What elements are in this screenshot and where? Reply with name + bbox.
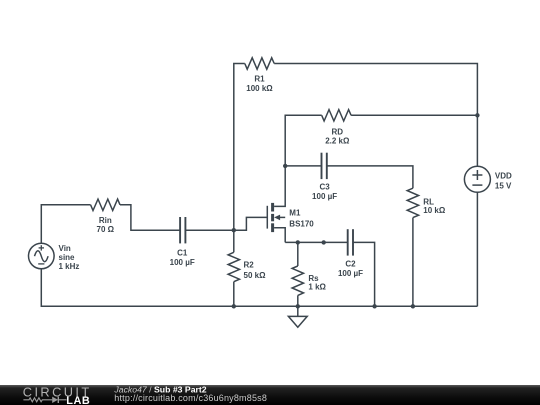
svg-text:C1: C1 <box>177 249 188 258</box>
svg-text:70 Ω: 70 Ω <box>97 225 115 234</box>
svg-text:M1: M1 <box>289 209 301 218</box>
wire R1 to VDD rail <box>274 64 477 167</box>
wire RL to bottom rail <box>412 218 414 307</box>
wire VDD bottom to rail <box>476 192 478 306</box>
node RD-rail junction <box>475 113 479 117</box>
svg-text:R1: R1 <box>254 75 265 84</box>
svg-text:1 kHz: 1 kHz <box>59 262 80 271</box>
wire gate node to M1 gate <box>234 217 267 230</box>
svg-text:sine: sine <box>59 253 76 262</box>
resistor R1 <box>245 58 274 93</box>
wire Vin bottom and ground rail <box>41 269 477 307</box>
node gate junction <box>232 228 236 232</box>
wire C3 to RL <box>327 166 413 188</box>
wire C1 to gate node <box>185 229 233 231</box>
wire Vin top to Rin <box>41 205 90 244</box>
node C2-rail junction <box>372 304 376 308</box>
svg-text:1 kΩ: 1 kΩ <box>308 283 326 292</box>
node drain junction <box>283 164 287 168</box>
ground <box>288 306 307 327</box>
svg-text:R2: R2 <box>244 260 255 269</box>
logo doodle resistor <box>23 398 52 402</box>
resistor R2 <box>228 252 266 281</box>
resistor Rs <box>292 266 326 295</box>
svg-text:C2: C2 <box>345 259 356 268</box>
wire C2 to bottom rail <box>353 242 375 306</box>
logo doodle diode <box>52 397 66 403</box>
node Rs-ground junction <box>296 304 300 308</box>
svg-text:100 µF: 100 µF <box>312 192 337 201</box>
svg-text:Rs: Rs <box>308 274 319 283</box>
svg-text:100 µF: 100 µF <box>338 269 363 278</box>
svg-text:15 V: 15 V <box>495 182 512 191</box>
wire RD to VDD rail <box>351 114 477 116</box>
wire source to Rs <box>297 242 299 266</box>
wire R2 top <box>233 230 235 252</box>
node R2-rail junction <box>232 304 236 308</box>
transistor M1 <box>267 166 314 243</box>
node source-Rs junction <box>296 240 300 244</box>
wire Rs to bottom rail <box>297 295 299 306</box>
source VDD <box>464 166 512 192</box>
source Vin <box>29 243 80 271</box>
svg-text:Rin: Rin <box>99 216 112 225</box>
svg-text:2.2 kΩ: 2.2 kΩ <box>325 137 350 146</box>
footer bar <box>0 385 540 405</box>
resistor RL <box>407 188 446 217</box>
svg-text:10 kΩ: 10 kΩ <box>423 206 446 215</box>
wire drain node up to RD <box>285 115 322 166</box>
resistor RD <box>322 110 351 146</box>
capacitor C1 <box>170 217 195 267</box>
svg-text:100 kΩ: 100 kΩ <box>246 84 273 93</box>
wire Rin to C1 <box>120 205 180 230</box>
wire gate node up to R1 <box>234 64 245 231</box>
svg-text:RD: RD <box>332 127 344 136</box>
resistor Rin <box>91 199 120 234</box>
svg-text:LAB: LAB <box>66 395 90 405</box>
node RL-rail junction <box>411 304 415 308</box>
wire drain node to C3 <box>285 165 321 167</box>
svg-text:http://circuitlab.com/c36u6ny8: http://circuitlab.com/c36u6ny8m85s8 <box>114 393 267 403</box>
wire R2 to bottom rail <box>233 282 235 307</box>
svg-text:VDD: VDD <box>495 172 512 181</box>
svg-text:BS170: BS170 <box>289 220 314 229</box>
svg-text:100 µF: 100 µF <box>170 258 195 267</box>
wire source net to C2 <box>285 241 348 243</box>
node source wire junction <box>322 240 326 244</box>
svg-text:50 kΩ: 50 kΩ <box>244 271 267 280</box>
svg-text:C3: C3 <box>319 182 330 191</box>
capacitor C3 <box>312 153 337 201</box>
capacitor C2 <box>338 229 363 278</box>
